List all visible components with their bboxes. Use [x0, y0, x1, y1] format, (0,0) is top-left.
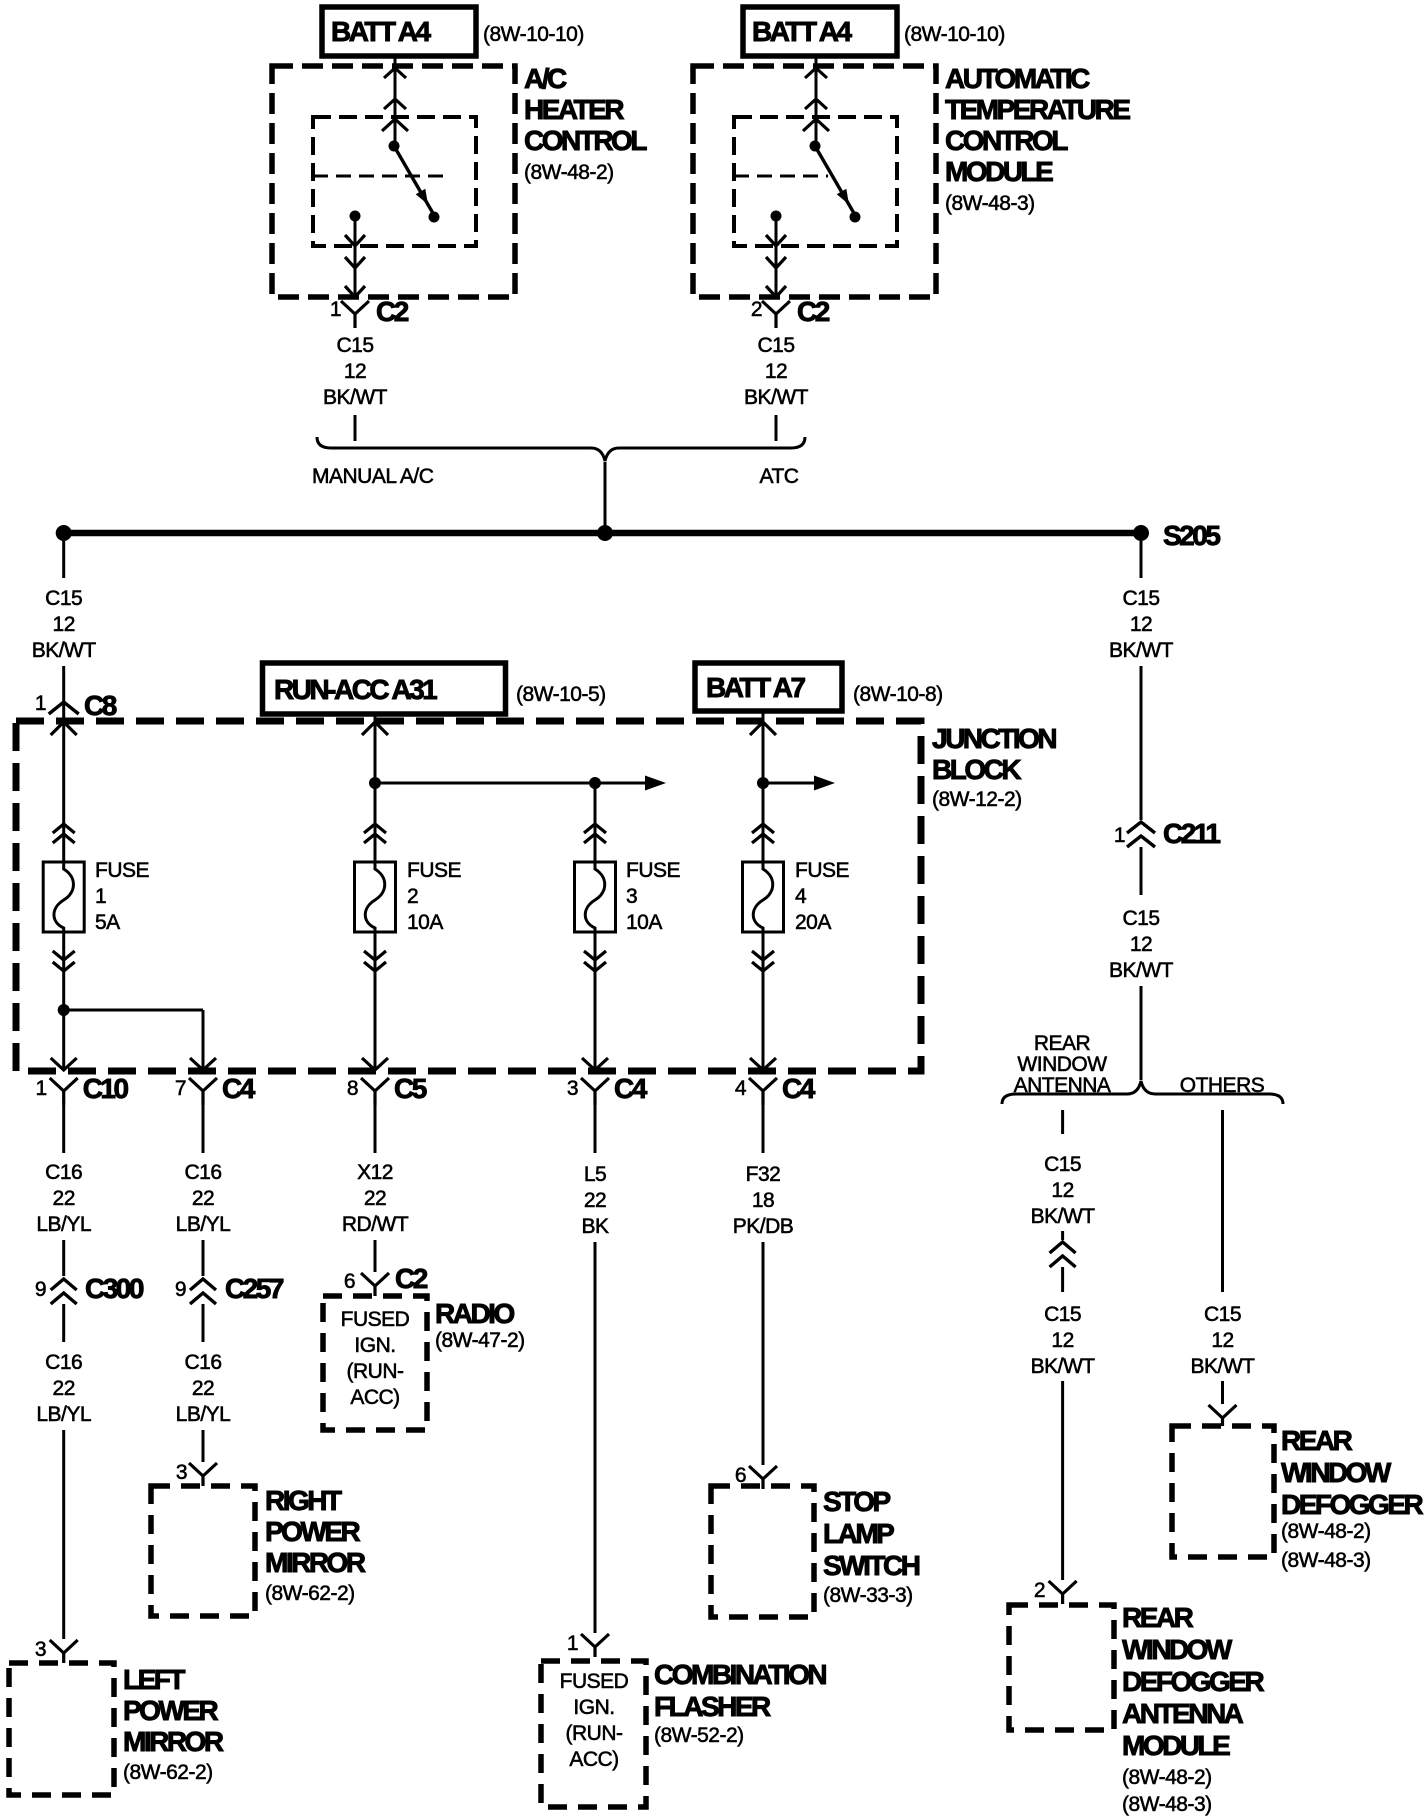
svg-text:ACC): ACC) [350, 1386, 399, 1409]
svg-text:C300: C300 [85, 1273, 144, 1304]
wire label C15 12 BK/WT [323, 334, 388, 409]
junction block label [932, 723, 1056, 811]
wire [202, 1105, 205, 1153]
fuse 4 label [795, 859, 850, 934]
wire [1061, 1231, 1064, 1240]
label REAR WINDOW DEFOGGER [1281, 1425, 1424, 1572]
svg-text:C15: C15 [1122, 587, 1159, 610]
connector C8 (half) [49, 702, 79, 714]
connector (half) at combination flasher [581, 1634, 609, 1657]
svg-text:BK/WT: BK/WT [1109, 959, 1174, 982]
label STOP LAMP SWITCH [823, 1486, 920, 1607]
svg-text:WINDOW: WINDOW [1017, 1053, 1107, 1076]
component box rear window defogger [1172, 1426, 1274, 1557]
svg-text:WINDOW: WINDOW [1281, 1457, 1392, 1488]
pin 1 [330, 298, 341, 321]
svg-text:MIRROR: MIRROR [123, 1726, 224, 1757]
wire [1061, 1381, 1064, 1580]
wire [374, 1105, 377, 1153]
svg-text:22: 22 [584, 1189, 606, 1212]
in-line connector marks [1050, 1242, 1076, 1267]
svg-text:12: 12 [1051, 1179, 1073, 1202]
svg-text:AUTOMATIC: AUTOMATIC [945, 63, 1090, 94]
fuse 3 [575, 862, 616, 932]
svg-text:(8W-12-2): (8W-12-2) [932, 788, 1022, 811]
svg-text:3: 3 [626, 885, 637, 908]
label RADIO [435, 1298, 525, 1352]
wire label C15 12 BK/WT [1109, 907, 1174, 982]
component box combination flasher [541, 1661, 646, 1807]
pin 3 [567, 1077, 578, 1100]
component box automatic temperature control module [693, 63, 1130, 297]
svg-text:9: 9 [35, 1278, 46, 1301]
connector label C2 [376, 296, 409, 327]
svg-text:TEMPERATURE: TEMPERATURE [945, 94, 1130, 125]
label OTHERS [1180, 1074, 1265, 1097]
wire branch to C4 pin 7 [64, 1010, 216, 1070]
svg-text:(8W-48-3): (8W-48-3) [945, 192, 1035, 215]
wire from brace to splice bus [604, 462, 607, 531]
wire label C15 12 BK/WT [1031, 1153, 1096, 1228]
label MANUAL A/C [312, 465, 434, 488]
svg-text:BLOCK: BLOCK [932, 754, 1021, 785]
svg-text:10A: 10A [407, 911, 443, 934]
junction node [757, 777, 769, 789]
svg-text:FUSE: FUSE [795, 859, 850, 882]
label RIGHT POWER MIRROR [265, 1485, 366, 1605]
svg-text:SWITCH: SWITCH [823, 1550, 920, 1581]
connector C257 [190, 1279, 216, 1304]
fuse 1 label [95, 859, 150, 934]
svg-text:MODULE: MODULE [1122, 1730, 1230, 1761]
svg-text:C15: C15 [1122, 907, 1159, 930]
svg-text:LB/YL: LB/YL [36, 1213, 91, 1236]
svg-text:(8W-33-3): (8W-33-3) [823, 1584, 913, 1607]
svg-text:BK/WT: BK/WT [744, 386, 809, 409]
svg-text:F32: F32 [746, 1163, 781, 1186]
splice bus S205 [56, 525, 1149, 541]
wire [1221, 1110, 1224, 1292]
wire [594, 1242, 597, 1633]
svg-text:C2: C2 [395, 1263, 428, 1294]
svg-text:JUNCTION: JUNCTION [932, 723, 1056, 754]
wire branch fuse 3 [584, 783, 606, 862]
svg-text:12: 12 [53, 613, 75, 636]
connector label C10 [83, 1073, 129, 1104]
component box rear window defogger antenna module [1009, 1605, 1114, 1730]
svg-text:10A: 10A [626, 911, 662, 934]
feed wire with arrow [375, 776, 666, 791]
connector label C4 [614, 1073, 648, 1104]
svg-text:12: 12 [1211, 1329, 1233, 1352]
connector label C4 [222, 1073, 256, 1104]
power feed box BATT A4 (A/C heater control) [322, 7, 476, 56]
component box left power mirror [9, 1663, 114, 1795]
connector label C8 [84, 690, 117, 721]
svg-text:BK/WT: BK/WT [1031, 1355, 1096, 1378]
wire [1140, 986, 1143, 1080]
svg-text:C8: C8 [84, 690, 117, 721]
svg-text:C15: C15 [45, 587, 82, 610]
wire label C15 12 BK/WT [32, 587, 97, 662]
svg-text:C4: C4 [614, 1073, 648, 1104]
wire label C15 12 BK/WT [1191, 1303, 1256, 1378]
pin 9 [35, 1278, 46, 1301]
svg-text:1: 1 [35, 692, 46, 715]
svg-text:RIGHT: RIGHT [265, 1485, 342, 1516]
svg-text:LAMP: LAMP [823, 1518, 894, 1549]
svg-text:1: 1 [330, 298, 341, 321]
reference (8W-10-5) [516, 683, 606, 706]
svg-text:12: 12 [344, 360, 366, 383]
svg-text:C15: C15 [336, 334, 373, 357]
pin 1 [567, 1632, 578, 1655]
connector label C300 [85, 1273, 144, 1304]
svg-text:C15: C15 [1204, 1303, 1241, 1326]
pin 1 [1114, 824, 1125, 847]
svg-text:18: 18 [752, 1189, 774, 1212]
reference (8W-10-8) [853, 683, 943, 706]
wire [202, 1304, 205, 1342]
svg-text:4: 4 [735, 1077, 747, 1100]
wire from BATT A4 into control [803, 56, 829, 146]
pin 9 [175, 1278, 186, 1301]
svg-text:(8W-48-2): (8W-48-2) [1281, 1520, 1371, 1543]
svg-text:1: 1 [36, 1077, 47, 1100]
connector (half) at defogger antenna module [1049, 1581, 1077, 1604]
switch contacts and blade [350, 141, 440, 223]
svg-text:BK/WT: BK/WT [1191, 1355, 1256, 1378]
svg-text:FUSE: FUSE [95, 859, 150, 882]
svg-text:HEATER: HEATER [524, 94, 624, 125]
in-line connector marks [752, 824, 774, 843]
svg-text:ACC): ACC) [569, 1748, 618, 1771]
svg-text:C4: C4 [782, 1073, 816, 1104]
wire [1061, 1267, 1064, 1292]
svg-text:FLASHER: FLASHER [654, 1691, 771, 1722]
svg-text:(8W-10-5): (8W-10-5) [516, 683, 606, 706]
wire from S205 left [62, 541, 65, 578]
svg-text:MIRROR: MIRROR [265, 1547, 366, 1578]
svg-text:(8W-48-2): (8W-48-2) [1122, 1766, 1212, 1789]
svg-text:POWER: POWER [123, 1695, 219, 1726]
switch output wire to connector C2 [345, 221, 365, 297]
svg-text:BK: BK [581, 1215, 609, 1238]
feed wire with arrow [763, 776, 835, 791]
component box right power mirror [151, 1486, 255, 1616]
wire [354, 415, 357, 441]
pin 2 [751, 298, 762, 321]
wire label C16 22 LB/YL [36, 1161, 91, 1236]
label COMBINATION FLASHER [654, 1659, 826, 1747]
svg-text:1: 1 [1114, 824, 1125, 847]
inner switch box [734, 117, 897, 246]
svg-text:LB/YL: LB/YL [176, 1403, 231, 1426]
wire label C16 22 LB/YL [176, 1161, 231, 1236]
svg-text:8: 8 [347, 1077, 358, 1100]
wire below fuse 1 [51, 932, 77, 1070]
svg-text:C2: C2 [797, 296, 830, 327]
svg-text:RD/WT: RD/WT [342, 1213, 409, 1236]
svg-text:MANUAL A/C: MANUAL A/C [312, 465, 434, 488]
label REAR WINDOW ANTENNA [1014, 1032, 1111, 1097]
svg-text:REAR: REAR [1034, 1032, 1091, 1055]
fuse 2 label [407, 859, 462, 934]
wire [1061, 1110, 1064, 1134]
svg-text:3: 3 [176, 1461, 187, 1484]
svg-text:7: 7 [175, 1077, 186, 1100]
svg-text:STOP: STOP [823, 1486, 891, 1517]
wire [594, 1105, 597, 1153]
svg-text:X12: X12 [357, 1161, 393, 1184]
wire branch fuse 1 [51, 722, 77, 862]
component box radio [323, 1296, 427, 1430]
brace joining manual A/C and ATC wires [317, 437, 805, 461]
connector label C257 [225, 1273, 284, 1304]
svg-text:6: 6 [344, 1270, 355, 1293]
svg-text:(RUN-: (RUN- [347, 1360, 404, 1383]
pin 1 [36, 1077, 47, 1100]
svg-text:(8W-10-10): (8W-10-10) [483, 23, 584, 46]
connector label C4 [782, 1073, 816, 1104]
wire [762, 1105, 765, 1153]
junction node [589, 777, 601, 789]
junction node [369, 777, 381, 789]
wire label F32 18 PK/DB [733, 1163, 794, 1238]
label ATC [760, 465, 799, 488]
connector C10 (half) [50, 1078, 78, 1105]
wire to C8 [62, 666, 65, 722]
svg-text:(8W-62-2): (8W-62-2) [123, 1761, 213, 1784]
svg-text:C16: C16 [184, 1161, 221, 1184]
connector (half) at right power mirror [189, 1463, 217, 1486]
connector (half) at radio [361, 1273, 389, 1296]
svg-text:RUN-ACC A31: RUN-ACC A31 [274, 674, 437, 705]
inner switch box [313, 117, 476, 246]
svg-text:BATT A7: BATT A7 [706, 672, 806, 703]
wire label C15 12 BK/WT [1109, 587, 1174, 662]
svg-text:LB/YL: LB/YL [36, 1403, 91, 1426]
svg-text:BATT A4: BATT A4 [331, 16, 432, 47]
svg-text:REAR: REAR [1122, 1602, 1194, 1633]
svg-text:RADIO: RADIO [435, 1298, 514, 1329]
wire [775, 415, 778, 441]
connector label C211 [1163, 818, 1220, 849]
svg-text:LB/YL: LB/YL [176, 1213, 231, 1236]
power feed box RUN-ACC A31 [263, 663, 506, 714]
reference (8W-10-10) [483, 23, 584, 46]
svg-text:DEFOGGER: DEFOGGER [1281, 1489, 1424, 1520]
svg-text:REAR: REAR [1281, 1425, 1353, 1456]
svg-text:C5: C5 [394, 1073, 427, 1104]
svg-text:C257: C257 [225, 1273, 284, 1304]
label LEFT POWER MIRROR [123, 1664, 224, 1784]
reference (8W-10-10) [904, 23, 1005, 46]
svg-text:BATT A4: BATT A4 [752, 16, 853, 47]
svg-text:C16: C16 [184, 1351, 221, 1374]
power feed box BATT A4 (automatic temperature control module) [743, 7, 897, 56]
svg-text:BK/WT: BK/WT [1109, 639, 1174, 662]
svg-text:C15: C15 [1044, 1303, 1081, 1326]
svg-text:POWER: POWER [265, 1516, 361, 1547]
wire [62, 1240, 65, 1276]
svg-text:PK/DB: PK/DB [733, 1215, 794, 1238]
component box A/C heater control [272, 63, 647, 297]
junction block box [16, 721, 921, 1071]
svg-text:C211: C211 [1163, 818, 1220, 849]
svg-text:22: 22 [53, 1187, 75, 1210]
wire label C16 22 LB/YL [36, 1351, 91, 1426]
svg-text:2: 2 [1034, 1579, 1045, 1602]
connector label C2 [395, 1263, 428, 1294]
connector label C5 [394, 1073, 427, 1104]
svg-text:BK/WT: BK/WT [32, 639, 97, 662]
svg-text:1: 1 [567, 1632, 578, 1655]
wire [1140, 847, 1143, 895]
wire label C16 22 LB/YL [176, 1351, 231, 1426]
svg-text:FUSE: FUSE [626, 859, 681, 882]
svg-text:FUSED: FUSED [560, 1670, 629, 1693]
switch output wire to connector C2 [766, 221, 786, 297]
svg-text:2: 2 [751, 298, 762, 321]
svg-text:(8W-52-2): (8W-52-2) [654, 1724, 744, 1747]
svg-text:1: 1 [95, 885, 106, 908]
wire label L5 22 BK [581, 1163, 609, 1238]
connector C4 (half) [749, 1078, 777, 1105]
svg-text:22: 22 [192, 1187, 214, 1210]
svg-text:BK/WT: BK/WT [1031, 1205, 1096, 1228]
fuse 4 [743, 862, 784, 932]
svg-text:C15: C15 [1044, 1153, 1081, 1176]
connector (half) at left power mirror [50, 1640, 78, 1663]
pin 2 [1034, 1579, 1045, 1602]
wire [62, 1304, 65, 1342]
svg-text:FUSE: FUSE [407, 859, 462, 882]
svg-text:12: 12 [1130, 613, 1152, 636]
fuse 1 [43, 862, 84, 932]
pin 7 [175, 1077, 186, 1100]
pin 6 [735, 1464, 746, 1487]
svg-text:(8W-10-8): (8W-10-8) [853, 683, 943, 706]
svg-text:22: 22 [364, 1187, 386, 1210]
connector C211 [1127, 822, 1155, 847]
wire [762, 1242, 765, 1465]
svg-text:C16: C16 [45, 1351, 82, 1374]
svg-text:4: 4 [795, 885, 807, 908]
connector (half) at stop lamp switch [749, 1466, 777, 1489]
svg-text:5A: 5A [95, 911, 120, 934]
svg-text:WINDOW: WINDOW [1122, 1634, 1233, 1665]
svg-text:3: 3 [567, 1077, 578, 1100]
svg-text:CONTROL: CONTROL [524, 125, 647, 156]
wire [1221, 1381, 1224, 1404]
fuse 2 [355, 862, 396, 932]
connector C4 (half) [189, 1078, 217, 1105]
svg-text:(8W-47-2): (8W-47-2) [435, 1329, 525, 1352]
svg-text:22: 22 [53, 1377, 75, 1400]
wire below fuse 4 [750, 932, 776, 1070]
wire [62, 1105, 65, 1153]
radio internal label FUSED IGN (RUN-ACC) [341, 1308, 410, 1409]
brace splitting to rear window antenna and others [1002, 1081, 1283, 1104]
wire [202, 1240, 205, 1276]
wire from BATT A4 into control [382, 56, 408, 146]
svg-text:(RUN-: (RUN- [566, 1722, 623, 1745]
wire [1140, 666, 1143, 820]
svg-text:12: 12 [1051, 1329, 1073, 1352]
svg-text:FUSED: FUSED [341, 1308, 410, 1331]
pin 3 [176, 1461, 187, 1484]
fuse 3 label [626, 859, 681, 934]
svg-text:MODULE: MODULE [945, 156, 1053, 187]
svg-text:COMBINATION: COMBINATION [654, 1659, 826, 1690]
in-line connector marks [364, 824, 386, 843]
svg-text:3: 3 [35, 1638, 46, 1661]
wire [202, 1430, 205, 1462]
svg-text:(8W-48-3): (8W-48-3) [1281, 1549, 1371, 1572]
component box stop lamp switch [711, 1486, 814, 1617]
svg-text:DEFOGGER: DEFOGGER [1122, 1666, 1265, 1697]
connector (half) at rear window defogger [1209, 1405, 1237, 1426]
svg-text:9: 9 [175, 1278, 186, 1301]
svg-text:BK/WT: BK/WT [323, 386, 388, 409]
wire [62, 1430, 65, 1639]
svg-text:C15: C15 [757, 334, 794, 357]
wire from BATT A7 [750, 711, 776, 862]
svg-text:C10: C10 [83, 1073, 129, 1104]
connector C2 (half) [762, 301, 790, 328]
svg-text:22: 22 [192, 1377, 214, 1400]
connector C2 (half) [341, 301, 369, 328]
wire [374, 1240, 377, 1272]
wire label C15 12 BK/WT [1031, 1303, 1096, 1378]
connector C4 (half) [581, 1078, 609, 1105]
connector C300 [51, 1279, 77, 1304]
svg-text:C4: C4 [222, 1073, 256, 1104]
pin 6 [344, 1270, 355, 1293]
svg-text:C2: C2 [376, 296, 409, 327]
splice label S205 [1163, 520, 1220, 551]
label REAR WINDOW DEFOGGER ANTENNA MODULE [1122, 1602, 1265, 1816]
svg-text:IGN.: IGN. [573, 1696, 614, 1719]
svg-text:(8W-48-3): (8W-48-3) [1122, 1793, 1212, 1816]
wire label C15 12 BK/WT [744, 334, 809, 409]
flasher internal label FUSED IGN (RUN-ACC) [560, 1670, 629, 1771]
wire below fuse 2 [362, 932, 388, 1070]
svg-text:(8W-48-2): (8W-48-2) [524, 161, 614, 184]
svg-text:C16: C16 [45, 1161, 82, 1184]
wire from RUN-ACC A31 [362, 714, 388, 862]
svg-text:12: 12 [765, 360, 787, 383]
junction node [58, 1004, 70, 1016]
svg-text:S205: S205 [1163, 520, 1220, 551]
wire label X12 22 RD/WT [342, 1161, 409, 1236]
svg-text:IGN.: IGN. [354, 1334, 395, 1357]
switch contacts and blade [771, 141, 861, 223]
svg-text:LEFT: LEFT [123, 1664, 185, 1695]
wire from S205 right [1140, 541, 1143, 578]
svg-text:20A: 20A [795, 911, 831, 934]
svg-text:(8W-10-10): (8W-10-10) [904, 23, 1005, 46]
pin 1 [35, 692, 46, 715]
pin 8 [347, 1077, 358, 1100]
svg-text:2: 2 [407, 885, 418, 908]
pin 4 [735, 1077, 747, 1100]
pin 3 [35, 1638, 46, 1661]
svg-text:L5: L5 [584, 1163, 606, 1186]
connector label C2 [797, 296, 830, 327]
svg-text:A/C: A/C [524, 63, 567, 94]
